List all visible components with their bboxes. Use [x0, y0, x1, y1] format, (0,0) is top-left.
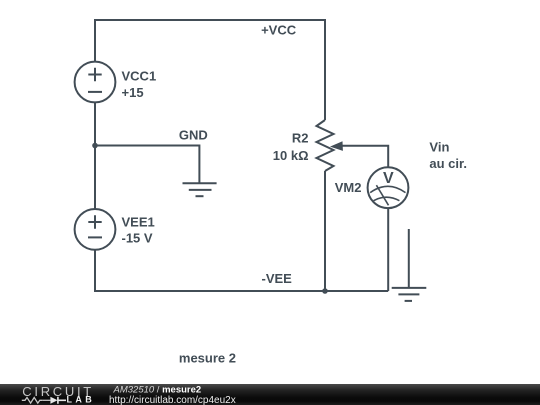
wire R2 bottom to rail: [324, 171, 326, 291]
svg-text:+15: +15: [122, 85, 144, 100]
label VCC1 value: [122, 68, 157, 100]
wire R2 wiper to VM2: [341, 146, 389, 168]
wiper arrow of R2: [330, 141, 343, 151]
svg-text:au cir.: au cir.: [429, 156, 467, 171]
wire bottom rail -VEE: [95, 250, 388, 291]
ground right of VM2: [392, 229, 427, 301]
svg-text:http://circuitlab.com/cp4eu2x: http://circuitlab.com/cp4eu2x: [109, 395, 236, 405]
potentiometer R2: [317, 120, 334, 171]
svg-text:-15 V: -15 V: [122, 231, 153, 246]
label VEE1 value: [122, 214, 155, 245]
wire top rail from VCC1 to R2: [95, 20, 325, 120]
svg-text:VEE1: VEE1: [122, 214, 155, 229]
node junction GND tap: [92, 143, 98, 149]
svg-text:-VEE: -VEE: [262, 271, 293, 286]
voltage source VCC1: [75, 62, 116, 103]
label R2 value: [273, 130, 309, 163]
voltage source VEE1: [75, 209, 116, 250]
svg-text:Vin: Vin: [429, 140, 449, 155]
svg-text:+VCC: +VCC: [261, 22, 297, 37]
svg-text:LAB: LAB: [67, 395, 96, 405]
logo diode symbol: [43, 399, 51, 401]
voltmeter VM2: [368, 167, 409, 208]
svg-text:10 kΩ: 10 kΩ: [273, 148, 309, 163]
node junction bottom rail: [322, 288, 328, 294]
svg-text:VM2: VM2: [335, 180, 362, 195]
svg-text:mesure 2: mesure 2: [179, 350, 236, 365]
wire to ground GND: [95, 146, 199, 184]
wire VM2 bottom to rail: [387, 208, 389, 291]
svg-text:R2: R2: [292, 130, 309, 145]
wire VCC1 to VEE1: [94, 102, 96, 209]
svg-text:GND: GND: [179, 128, 208, 143]
footer bar: [0, 384, 540, 405]
svg-text:VCC1: VCC1: [122, 68, 157, 83]
label Vin au cir.: [429, 140, 467, 172]
ground GND: [183, 183, 217, 196]
svg-text:V: V: [383, 170, 394, 187]
logo resistor zigzag: [22, 398, 43, 404]
